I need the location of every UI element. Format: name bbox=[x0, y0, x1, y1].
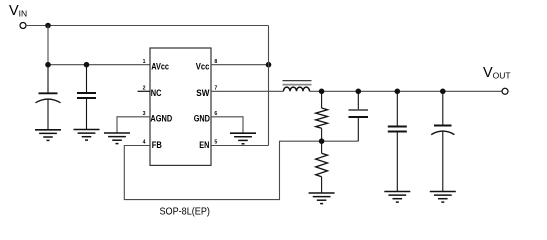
junction divider node FB bbox=[319, 138, 325, 144]
wire FB pin 4 loop to divider node bbox=[124, 141, 358, 199]
svg-text:GND: GND bbox=[194, 113, 210, 124]
wire AGND pin 3 to ground bbox=[117, 117, 150, 133]
junction Vcc / VIN vertical bbox=[266, 62, 272, 68]
capacitor C4 (output electrolytic) bbox=[431, 91, 454, 191]
inductor L1 core bars bbox=[283, 81, 312, 85]
capacitor C1 (input electrolytic) bbox=[36, 65, 61, 130]
wire output rail bbox=[310, 90, 503, 92]
svg-text:FB: FB bbox=[152, 140, 162, 151]
svg-text:6: 6 bbox=[214, 111, 217, 117]
wire SW pin 7 to inductor bbox=[211, 90, 284, 92]
input terminal VIN bbox=[20, 23, 26, 29]
capacitor C2 (input ceramic) bbox=[77, 65, 96, 130]
svg-text:1: 1 bbox=[143, 59, 146, 65]
op-amp U1 body SOP-8L(EP) bbox=[150, 48, 211, 165]
ground G2 bbox=[74, 130, 100, 141]
svg-text:AVcc: AVcc bbox=[151, 61, 169, 72]
junction AVcc rail C1 bbox=[45, 62, 51, 68]
wire GND pin 6 to ground bbox=[211, 117, 243, 133]
ground G1 bbox=[35, 130, 61, 141]
resistor R2 (lower divider) bbox=[316, 141, 328, 193]
svg-text:7: 7 bbox=[214, 86, 217, 92]
wire AVcc rail to pin 1 bbox=[48, 64, 150, 66]
wire VIN vertical to EN bbox=[268, 26, 270, 146]
junction VIN rail bbox=[45, 23, 51, 29]
svg-text:3: 3 bbox=[143, 111, 146, 117]
svg-text:5: 5 bbox=[214, 140, 217, 146]
wire VIN top rail bbox=[26, 25, 269, 27]
junction output C4 bbox=[440, 89, 446, 95]
wire EN pin 5 to VIN vertical bbox=[211, 145, 269, 147]
svg-text:2: 2 bbox=[143, 86, 146, 92]
svg-text:EN: EN bbox=[199, 140, 209, 151]
svg-text:VIN: VIN bbox=[9, 3, 27, 19]
ground G3 (AGND) bbox=[104, 133, 130, 144]
pin 2 NC stub bbox=[138, 90, 151, 92]
junction AVcc rail C2 bbox=[84, 62, 90, 68]
svg-text:NC: NC bbox=[151, 88, 162, 99]
ground G6 (C3) bbox=[384, 192, 410, 203]
svg-text:AGND: AGND bbox=[150, 113, 172, 124]
svg-text:SW: SW bbox=[196, 88, 209, 99]
svg-text:8: 8 bbox=[214, 59, 217, 65]
output terminal VOUT bbox=[502, 88, 508, 94]
svg-text:VOUT: VOUT bbox=[483, 65, 511, 81]
resistor R1 (upper divider) bbox=[316, 91, 328, 141]
ground G5 (R2) bbox=[309, 193, 335, 204]
svg-text:Vcc: Vcc bbox=[196, 61, 210, 72]
inductor L1 winding bbox=[284, 87, 310, 91]
junction output R1 bbox=[319, 89, 325, 95]
ground G4 (GND pin) bbox=[230, 133, 256, 144]
ground G7 (C4) bbox=[430, 192, 456, 203]
wire VIN drop to AVcc rail bbox=[47, 26, 49, 65]
svg-text:4: 4 bbox=[143, 140, 146, 146]
capacitor C3 (output ceramic) bbox=[388, 91, 407, 191]
svg-text:SOP-8L(EP): SOP-8L(EP) bbox=[160, 206, 210, 218]
junction output Cff bbox=[356, 89, 362, 95]
capacitor Cff (feed-forward) bbox=[349, 91, 369, 141]
wire Vcc pin 8 bbox=[211, 64, 269, 66]
junction output C3 bbox=[395, 89, 401, 95]
